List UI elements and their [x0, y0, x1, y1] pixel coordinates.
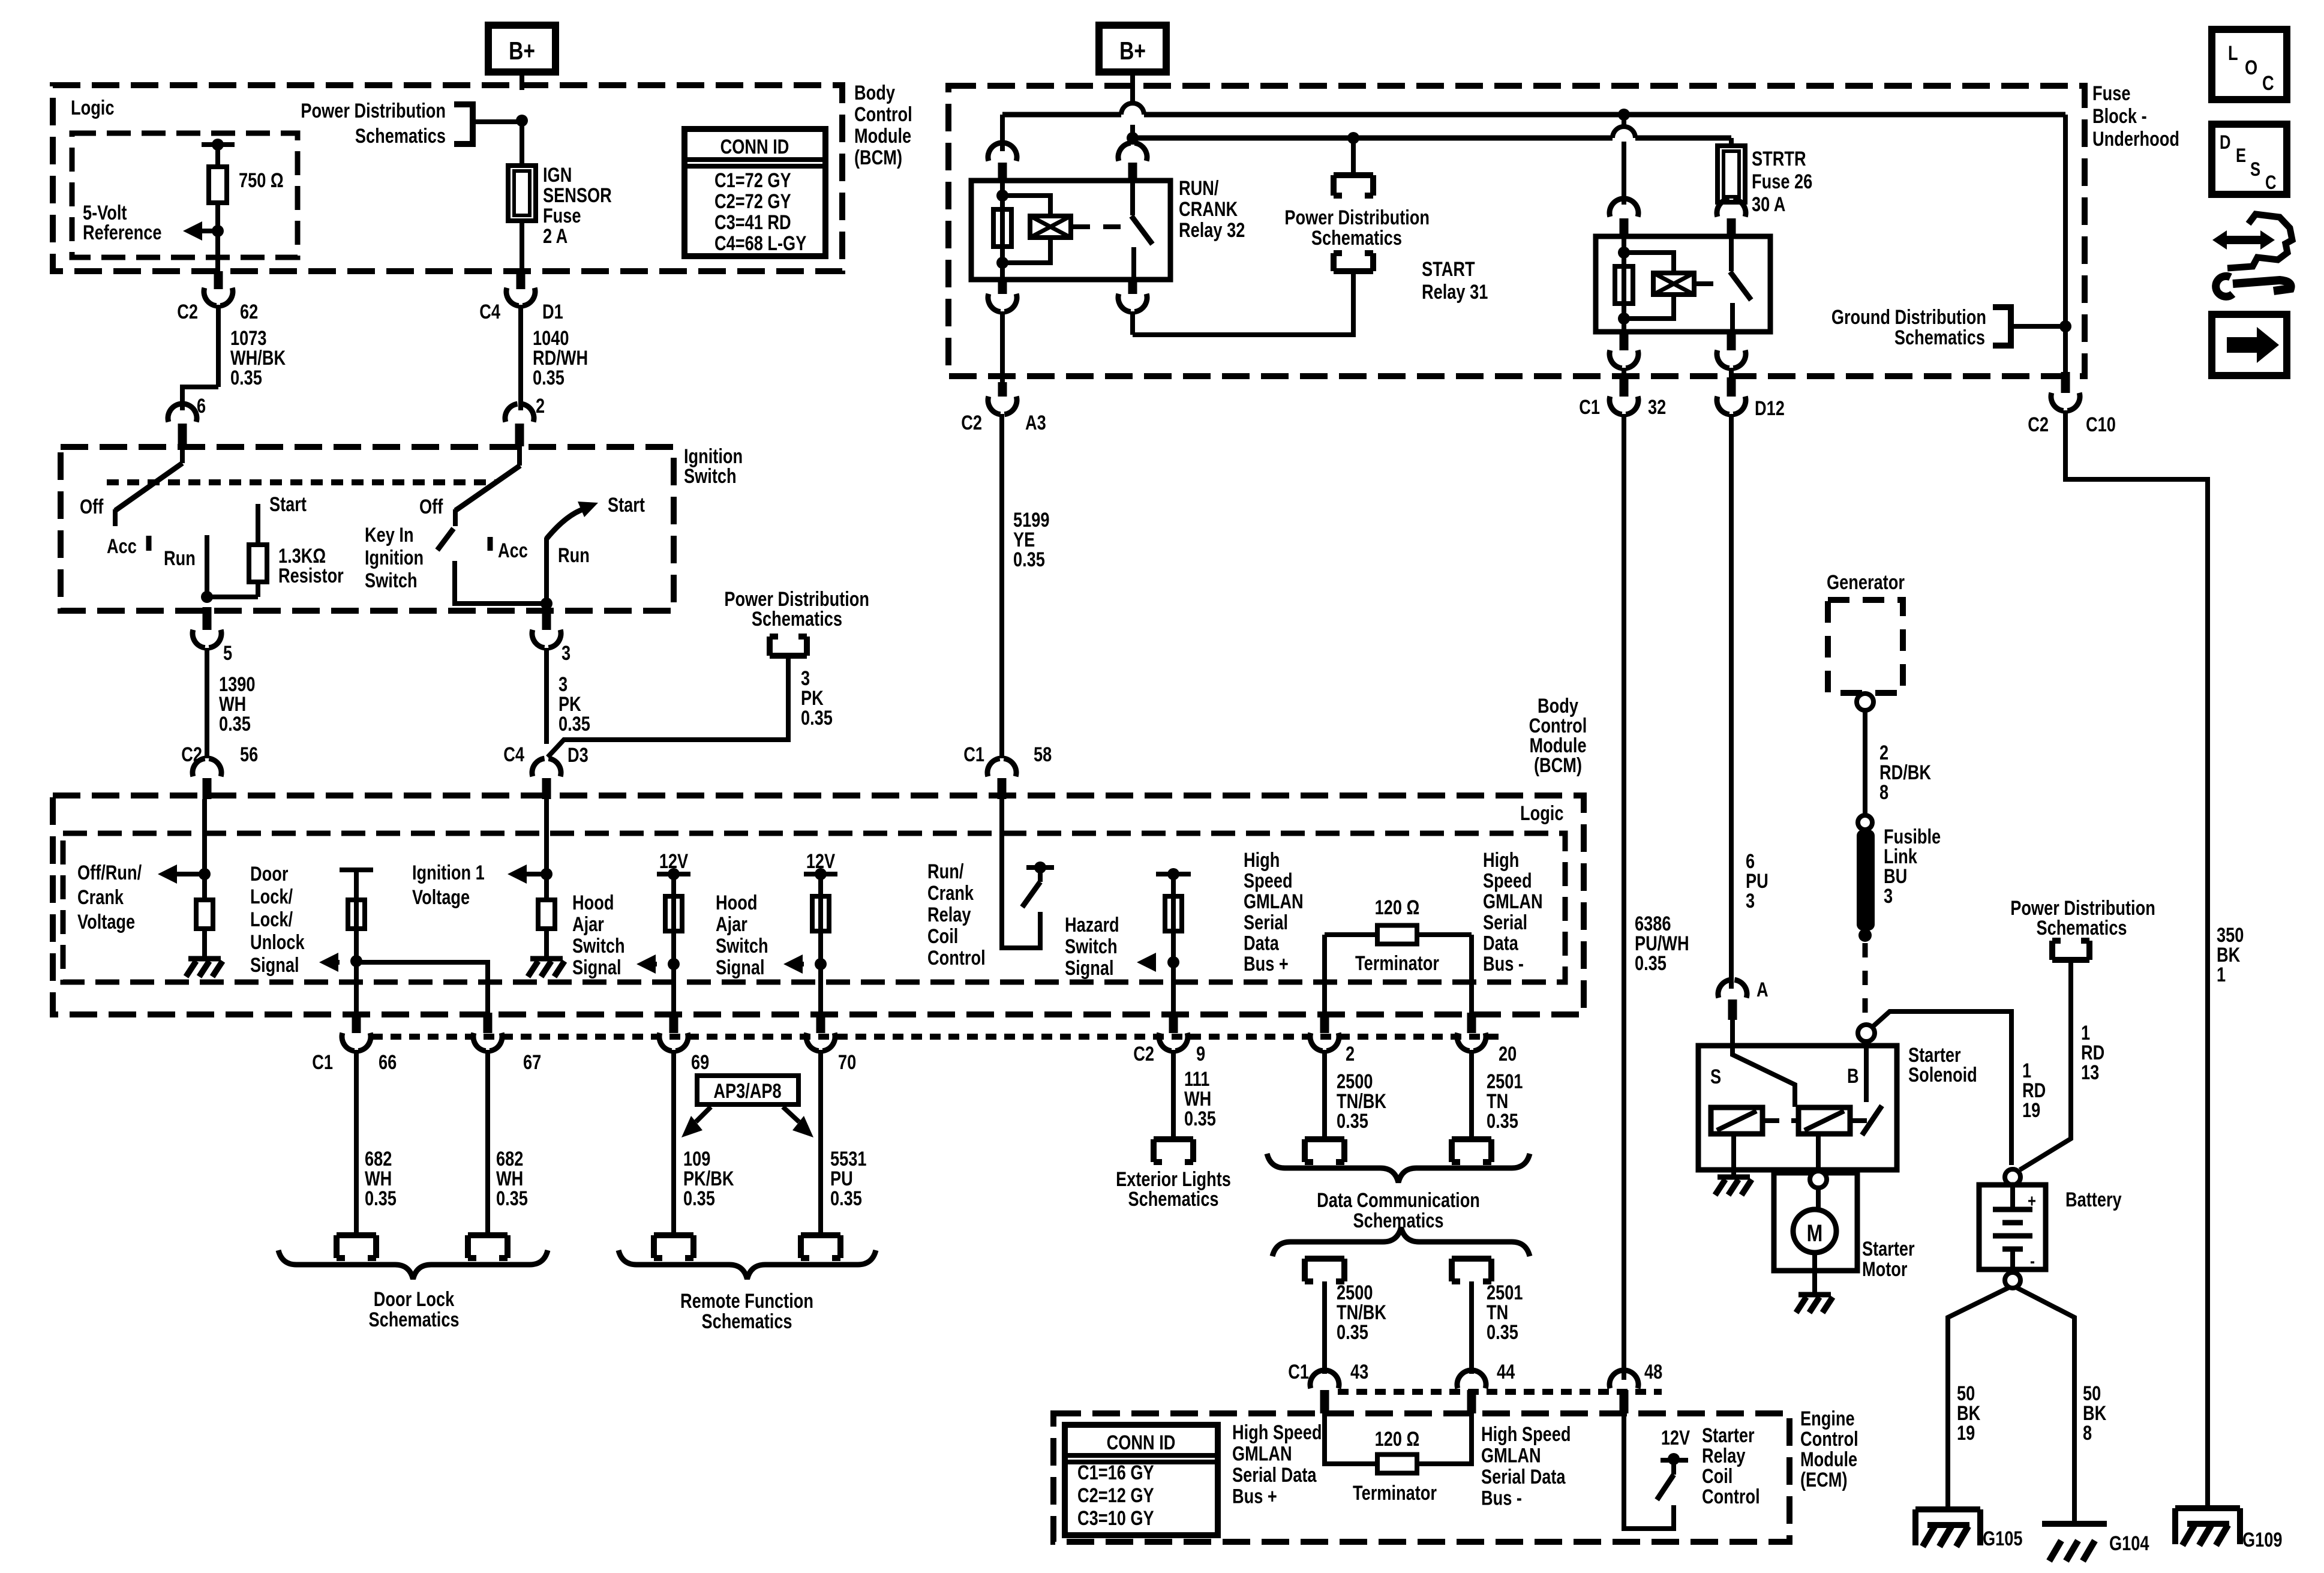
node hood ajar 2 tap: [815, 958, 827, 970]
wire starter relay coil control: [1624, 1413, 1674, 1529]
solenoid contact lever: [1862, 1106, 1882, 1135]
bus wire rail 2: [1133, 136, 1613, 141]
dotted connector line ECM row: [1338, 1389, 1662, 1395]
svg-text:Off/Run/: Off/Run/: [77, 861, 142, 884]
wire Run contact pole 1: [205, 535, 209, 597]
arrow AP3/AP8 to pin 70 wire: [783, 1107, 799, 1122]
wire pin85 to C1/32: [1622, 368, 1626, 374]
svg-text:Ignition: Ignition: [365, 546, 424, 569]
off-page terminal door lock 67: [468, 1235, 508, 1258]
svg-text:S: S: [1710, 1065, 1721, 1088]
svg-text:2: 2: [536, 394, 545, 418]
module box Body Control Module BCM (lower): [53, 795, 1584, 1014]
svg-text:8: 8: [2083, 1421, 2092, 1445]
svg-text:30 A: 30 A: [1752, 193, 1785, 216]
svg-text:SENSOR: SENSOR: [543, 184, 612, 207]
wire branch to pin 67: [356, 962, 488, 1013]
wire B+ to BCM: [520, 72, 524, 90]
wire relay31 coil to pin: [1622, 322, 1626, 332]
svg-text:Switch: Switch: [572, 934, 625, 957]
svg-text:12V: 12V: [659, 849, 689, 873]
svg-text:Run/: Run/: [927, 860, 964, 883]
icon box LOC: [2212, 29, 2287, 100]
switch run/crank relay coil control: [1026, 865, 1054, 870]
svg-text:66: 66: [379, 1050, 397, 1074]
relay32 coil circuit: [1000, 181, 1005, 266]
internal 12V bar hood ajar 2: [804, 872, 837, 876]
svg-text:D3: D3: [568, 743, 588, 767]
starter motor box: [1774, 1173, 1857, 1271]
node 5-Volt Reference tap: [212, 225, 224, 237]
internal T-bar hazard: [1156, 872, 1191, 876]
off-page terminal PDS down: [1334, 175, 1373, 196]
svg-text:CONN ID: CONN ID: [1107, 1431, 1176, 1454]
wire 3 PK: [544, 648, 549, 744]
svg-text:B: B: [1847, 1064, 1859, 1088]
svg-text:Acc: Acc: [498, 539, 528, 562]
svg-text:Remote Function: Remote Function: [680, 1289, 813, 1313]
svg-text:High: High: [1483, 848, 1519, 872]
connector table CONN ID (BCM): [684, 129, 825, 256]
wire door lock signal: [354, 870, 359, 1013]
svg-text:C4: C4: [503, 743, 524, 766]
solenoid S lever: [1733, 1046, 1795, 1107]
svg-text:Starter: Starter: [1702, 1424, 1755, 1447]
wire 6386 PU/WH from C1/32 to ECM 48: [1622, 414, 1626, 1380]
svg-text:Logic: Logic: [1520, 801, 1563, 825]
wire 109 PK/BK pin 69: [671, 1050, 676, 1235]
svg-text:48: 48: [1644, 1360, 1662, 1383]
svg-text:Start: Start: [269, 493, 307, 516]
svg-text:S: S: [2250, 159, 2260, 180]
brace door lock: [278, 1250, 548, 1279]
wire hood ajar 2: [818, 874, 823, 1013]
svg-text:Ajar: Ajar: [572, 912, 604, 936]
svg-text:C1=72 GY: C1=72 GY: [714, 169, 791, 192]
wire to ground: [202, 929, 207, 957]
wire rail1 to C10: [2063, 115, 2068, 372]
connector C4 pin D1 (BCM): [517, 271, 526, 289]
node junction ground distribution: [2059, 320, 2071, 332]
wire 3 PK jumper to D3: [548, 656, 788, 757]
solenoid hold-in winding: [1798, 1107, 1850, 1134]
wire jog to ignition switch pin 6: [182, 387, 218, 410]
svg-text:L: L: [2228, 41, 2238, 65]
off-page terminal PDS battery: [2052, 941, 2089, 960]
off-page terminal remote function 70: [801, 1235, 840, 1258]
svg-text:STRTR: STRTR: [1752, 147, 1806, 170]
svg-text:Motor: Motor: [1862, 1257, 1907, 1281]
svg-text:C: C: [2265, 172, 2277, 193]
svg-text:2 A: 2 A: [543, 224, 568, 248]
icon vehicle with double arrow and wrench: [2212, 230, 2275, 250]
svg-text:0.35: 0.35: [801, 706, 833, 730]
resistor hazard: [1165, 896, 1182, 931]
svg-text:Schematics: Schematics: [368, 1308, 459, 1331]
svg-text:3: 3: [1746, 889, 1755, 912]
wire 682 WH pin 66: [354, 1050, 359, 1235]
svg-text:C3=41 RD: C3=41 RD: [714, 211, 791, 234]
svg-text:High Speed: High Speed: [1481, 1422, 1571, 1446]
battery box: [1979, 1185, 2046, 1269]
svg-text:Voltage: Voltage: [412, 885, 470, 909]
svg-text:Speed: Speed: [1244, 869, 1293, 893]
svg-text:CONN ID: CONN ID: [720, 135, 789, 158]
node off/run/crank tap: [199, 868, 211, 880]
wire 1390 WH: [205, 648, 209, 758]
svg-text:Data Communication: Data Communication: [1317, 1188, 1480, 1212]
svg-text:Coil: Coil: [1702, 1464, 1733, 1488]
svg-text:Underhood: Underhood: [2092, 127, 2179, 151]
svg-text:Fuse: Fuse: [543, 204, 581, 227]
relay32 linkage dashes: [1072, 224, 1121, 229]
svg-text:Serial Data: Serial Data: [1481, 1465, 1566, 1488]
svg-text:C1=16 GY: C1=16 GY: [1077, 1461, 1154, 1484]
relay box RUN/CRANK Relay 32: [971, 181, 1170, 280]
relay31 linkage dashes: [1695, 281, 1724, 286]
connector relay32 pin 87 out: [1128, 280, 1137, 294]
svg-text:58: 58: [1034, 743, 1052, 766]
svg-text:Voltage: Voltage: [77, 910, 135, 933]
switch Start position curve with arrowhead: [547, 508, 589, 539]
svg-text:GMLAN: GMLAN: [1483, 890, 1543, 913]
ground starter solenoid: [1718, 1175, 1750, 1180]
svg-text:RUN/: RUN/: [1179, 176, 1219, 200]
connector C2 pin 9: [1169, 1013, 1178, 1033]
svg-text:CRANK: CRANK: [1179, 197, 1238, 221]
battery cells: [2010, 1185, 2015, 1209]
svg-text:Schematics: Schematics: [1894, 326, 1985, 349]
svg-text:3: 3: [1884, 884, 1893, 908]
svg-text:(BCM): (BCM): [854, 146, 902, 169]
svg-text:Starter: Starter: [1862, 1237, 1915, 1260]
relay32 switch: [1130, 181, 1135, 215]
wire relay31 coil feed: [1622, 115, 1626, 127]
resistor 750 ohm: [209, 167, 227, 203]
off-page terminal GMLAN+ lower: [1305, 1259, 1344, 1281]
svg-text:Serial: Serial: [1483, 911, 1527, 934]
svg-text:Hazard: Hazard: [1065, 913, 1119, 936]
svg-text:Serial Data: Serial Data: [1232, 1463, 1317, 1487]
svg-text:Resistor: Resistor: [278, 564, 344, 587]
svg-text:Run: Run: [164, 547, 196, 570]
svg-text:Relay 32: Relay 32: [1179, 218, 1245, 242]
svg-text:0.35: 0.35: [1184, 1107, 1216, 1130]
svg-text:Signal: Signal: [572, 956, 621, 979]
svg-text:Schematics: Schematics: [355, 124, 446, 148]
dashed wire fusible link to splice: [1863, 943, 1868, 1021]
wire relay32 coil to pin: [1000, 266, 1005, 280]
off-page terminal GMLAN+ upper: [1305, 1139, 1344, 1162]
off-page terminal door lock 66: [337, 1235, 376, 1258]
brace data communication lower: [1272, 1227, 1530, 1256]
svg-text:Control: Control: [1800, 1427, 1858, 1451]
svg-text:43: 43: [1350, 1360, 1368, 1383]
svg-text:(BCM): (BCM): [1534, 754, 1582, 777]
svg-text:13: 13: [2081, 1061, 2099, 1084]
crossover hop relay31 coil over rail 2: [1613, 127, 1635, 138]
svg-text:5: 5: [223, 641, 232, 665]
svg-text:C1: C1: [963, 743, 984, 766]
wire resistor bottom: [256, 582, 260, 597]
icon box arrow right: [2212, 314, 2287, 376]
wire D12 to starter solenoid A: [1729, 414, 1734, 989]
svg-text:750 Ω: 750 Ω: [239, 169, 284, 192]
svg-text:Switch: Switch: [365, 569, 418, 592]
svg-text:Off: Off: [80, 495, 104, 518]
svg-text:8: 8: [1879, 781, 1888, 804]
connector pin A starter solenoid: [1718, 980, 1747, 998]
svg-text:3: 3: [562, 641, 571, 665]
wire B+ down to rail 2: [1130, 125, 1135, 138]
wire 1 RD 13: [2020, 960, 2071, 1170]
solenoid output to motor: [1816, 1134, 1821, 1171]
svg-text:Control: Control: [1702, 1485, 1760, 1508]
svg-text:Fuse 26: Fuse 26: [1752, 170, 1812, 193]
svg-text:C4=68 L-GY: C4=68 L-GY: [714, 232, 807, 255]
svg-text:Ignition 1: Ignition 1: [412, 861, 485, 884]
solenoid B post: [1864, 1046, 1869, 1102]
arrow Door Lock signal: [319, 953, 338, 972]
wire 5531 PU pin 70: [818, 1050, 823, 1235]
connector relay32 pin 30: [1130, 138, 1135, 145]
terminal circle generator output: [1857, 694, 1873, 710]
svg-text:Fuse: Fuse: [2092, 82, 2130, 105]
connector pin 20 GMLAN-: [1467, 1013, 1476, 1033]
resistor door lock: [348, 900, 365, 929]
svg-text:56: 56: [240, 743, 258, 766]
svg-text:0.35: 0.35: [365, 1187, 397, 1210]
arrow Hood Ajar Switch Signal 1: [636, 954, 656, 974]
svg-text:0.35: 0.35: [559, 712, 590, 736]
svg-text:AP3/AP8: AP3/AP8: [713, 1079, 781, 1103]
svg-text:Schematics: Schematics: [701, 1310, 792, 1333]
svg-text:0.35: 0.35: [230, 366, 262, 389]
connector pin 2 GMLAN+: [1320, 1013, 1329, 1033]
wire 1073 WH/BK: [216, 305, 221, 387]
arrow Hood Ajar Switch Signal 2: [783, 954, 803, 974]
node junction rail1 relay31 coil: [1618, 109, 1630, 121]
B+ battery feed symbol B+ (fuse block): [1099, 25, 1166, 72]
wire GMLAN + to terminator (ECM): [1325, 1413, 1377, 1464]
relay32 actuator X-box: [1030, 216, 1071, 238]
svg-text:Battery: Battery: [2065, 1188, 2122, 1211]
svg-text:C: C: [2262, 71, 2274, 95]
svg-text:Door: Door: [250, 862, 288, 885]
svg-text:C2: C2: [961, 411, 982, 434]
solenoid winding 1 to ground: [1731, 1134, 1736, 1175]
wire resistor to BCM output: [215, 203, 220, 271]
svg-text:Switch: Switch: [684, 464, 737, 488]
module box Ignition Switch: [61, 447, 674, 611]
svg-text:120 Ω: 120 Ω: [1375, 1427, 1420, 1451]
module box Starter Solenoid: [1698, 1046, 1897, 1170]
crossover hop B+ over rail 1: [1121, 103, 1144, 115]
node door lock junction: [350, 955, 362, 967]
svg-text:32: 32: [1648, 395, 1666, 419]
svg-text:Signal: Signal: [250, 953, 299, 977]
svg-text:C1: C1: [1288, 1360, 1309, 1383]
wire 1040 RD/WH: [518, 305, 523, 410]
svg-text:E: E: [2236, 145, 2246, 166]
svg-text:-: -: [2030, 1250, 2035, 1271]
svg-text:1: 1: [2217, 963, 2226, 986]
svg-text:19: 19: [2022, 1098, 2040, 1122]
svg-text:GMLAN: GMLAN: [1232, 1442, 1292, 1466]
svg-text:Reference: Reference: [83, 221, 161, 244]
svg-text:Logic: Logic: [71, 96, 114, 119]
svg-text:Relay: Relay: [927, 903, 971, 926]
connector pin 69: [669, 1013, 678, 1033]
svg-text:A: A: [1756, 978, 1768, 1001]
svg-text:Serial: Serial: [1244, 911, 1288, 934]
svg-text:Speed: Speed: [1483, 869, 1532, 893]
svg-text:Engine: Engine: [1800, 1407, 1855, 1430]
fusible link BU 3: [1857, 830, 1875, 930]
wire relay32 switch output to PDS: [1133, 271, 1353, 335]
svg-text:44: 44: [1497, 1360, 1515, 1383]
wire 111 WH: [1171, 1050, 1176, 1139]
svg-text:C2: C2: [2028, 413, 2049, 436]
svg-text:Run: Run: [558, 544, 590, 567]
wire pin87 to D12: [1729, 368, 1734, 374]
svg-text:D1: D1: [542, 300, 563, 323]
svg-text:Ground Distribution: Ground Distribution: [1831, 305, 1986, 329]
svg-text:O: O: [2245, 56, 2257, 79]
svg-text:G105: G105: [1983, 1527, 2022, 1550]
resistor off/run/crank: [196, 900, 213, 929]
off-page fork Power Distribution to D3: [770, 637, 807, 656]
svg-text:70: 70: [838, 1050, 856, 1074]
svg-text:GMLAN: GMLAN: [1481, 1444, 1541, 1467]
svg-text:120 Ω: 120 Ω: [1375, 896, 1420, 919]
wire to ground 2: [544, 929, 549, 957]
svg-text:Signal: Signal: [716, 956, 765, 979]
svg-text:A3: A3: [1025, 411, 1046, 434]
connector pin 67: [484, 1013, 493, 1033]
svg-text:2: 2: [1346, 1042, 1355, 1065]
connector pin 5 ignition switch: [203, 607, 212, 630]
ground G104: [2042, 1521, 2107, 1527]
junction circle starter motor feed: [1810, 1171, 1827, 1188]
wire fuse to relay 31: [1729, 202, 1734, 205]
svg-text:Hood: Hood: [572, 891, 614, 914]
arrow Off/Run/Crank Voltage: [158, 864, 177, 884]
relay31 actuator X-box: [1653, 273, 1694, 295]
wire hazard switch signal: [1171, 874, 1176, 1013]
connector relay32 pin 85 out: [998, 280, 1007, 294]
svg-text:C10: C10: [2086, 413, 2116, 436]
wire B+ into fuse block: [1130, 72, 1135, 104]
connector pin D12: [1727, 377, 1736, 397]
fuse STRTR Fuse 26 30A: [1718, 146, 1745, 202]
svg-text:Body: Body: [854, 81, 895, 104]
wire L return pole 2: [455, 561, 547, 604]
svg-text:Relay: Relay: [1702, 1444, 1746, 1467]
wire junction to fuse IGN SENSOR: [520, 121, 524, 167]
ground G109: [2175, 1505, 2240, 1511]
connector pin 70: [816, 1013, 825, 1033]
svg-text:B+: B+: [509, 38, 535, 65]
key-in ignition switch arm: [437, 529, 454, 550]
svg-text:Switch: Switch: [1065, 935, 1118, 958]
svg-text:Hood: Hood: [716, 891, 757, 914]
resistor terminator 120 ohm (BCM): [1377, 926, 1417, 944]
svg-text:C3=10 GY: C3=10 GY: [1077, 1506, 1154, 1530]
svg-text:9: 9: [1196, 1042, 1205, 1065]
resistor hood ajar 1: [665, 896, 682, 931]
svg-text:Acc: Acc: [107, 535, 137, 558]
ground G105: [1915, 1506, 1980, 1512]
svg-text:67: 67: [523, 1050, 541, 1074]
svg-text:Data: Data: [1244, 931, 1280, 954]
wire PDS stem: [1351, 138, 1356, 175]
starter motor M circle: [1793, 1209, 1836, 1253]
svg-text:0.35: 0.35: [1487, 1320, 1518, 1344]
svg-text:Schematics: Schematics: [1311, 226, 1402, 250]
svg-text:Terminator: Terminator: [1355, 951, 1439, 975]
splice circle solenoid B feed: [1858, 1025, 1875, 1041]
connector relay31 pin 30: [1717, 199, 1746, 217]
svg-text:Terminator: Terminator: [1353, 1481, 1437, 1505]
node ignition 1 tap: [541, 868, 553, 880]
svg-text:(ECM): (ECM): [1800, 1468, 1848, 1491]
svg-text:Crank: Crank: [77, 885, 124, 909]
svg-text:Crank: Crank: [927, 881, 974, 905]
svg-text:0.35: 0.35: [1013, 548, 1045, 571]
svg-text:High Speed: High Speed: [1232, 1421, 1322, 1444]
wire 2501 TN upper: [1469, 1050, 1474, 1139]
module box Fuse Block - Underhood: [948, 86, 2085, 376]
arrow Ignition 1 Voltage: [508, 864, 527, 884]
fuse IGN SENSOR Fuse 2A: [508, 166, 536, 221]
off-page terminal GMLAN- upper: [1452, 1139, 1491, 1162]
svg-text:Block -: Block -: [2092, 104, 2147, 128]
ground BCM off/run/crank: [188, 956, 221, 962]
inner dashed box Logic: [63, 833, 1565, 982]
svg-text:Lock/: Lock/: [250, 885, 293, 908]
wire 2501 TN lower: [1469, 1281, 1474, 1374]
svg-text:C2: C2: [177, 300, 198, 323]
wire 350 BK down right side: [2065, 410, 2208, 1508]
internal T-bar door lock: [340, 867, 373, 872]
switch starter relay coil control: [1661, 1458, 1688, 1463]
wire 2 RD/BK: [1863, 710, 1867, 815]
svg-text:Ajar: Ajar: [716, 912, 747, 936]
svg-text:G104: G104: [2109, 1532, 2149, 1555]
svg-text:Bus +: Bus +: [1232, 1485, 1277, 1508]
internal 12V T-bar for resistor 750: [202, 142, 235, 147]
svg-text:C2=12 GY: C2=12 GY: [1077, 1484, 1154, 1507]
connector relay31 pin 85 out (cup): [1620, 332, 1629, 350]
svg-text:Solenoid: Solenoid: [1908, 1063, 1977, 1086]
B+ battery feed symbol B+ (BCM): [488, 25, 556, 72]
svg-text:Key In: Key In: [365, 523, 414, 547]
wire rail1 to relay32 coil: [1000, 115, 1005, 151]
wire to resistor 750: [215, 145, 220, 167]
callout box AP3/AP8: [697, 1076, 798, 1104]
svg-text:Lock/: Lock/: [250, 908, 293, 931]
wire 2500 TN/BK lower: [1322, 1281, 1327, 1374]
svg-text:Off: Off: [419, 495, 443, 518]
off-page bracket Ground Distribution: [1993, 307, 2011, 346]
svg-text:Door Lock: Door Lock: [374, 1287, 455, 1311]
svg-text:Control: Control: [854, 103, 912, 126]
relay31 coil circuit: [1622, 236, 1626, 322]
off-page terminal exterior lights: [1154, 1139, 1193, 1162]
node hazard tap: [1167, 956, 1179, 968]
svg-text:Module: Module: [854, 124, 911, 148]
